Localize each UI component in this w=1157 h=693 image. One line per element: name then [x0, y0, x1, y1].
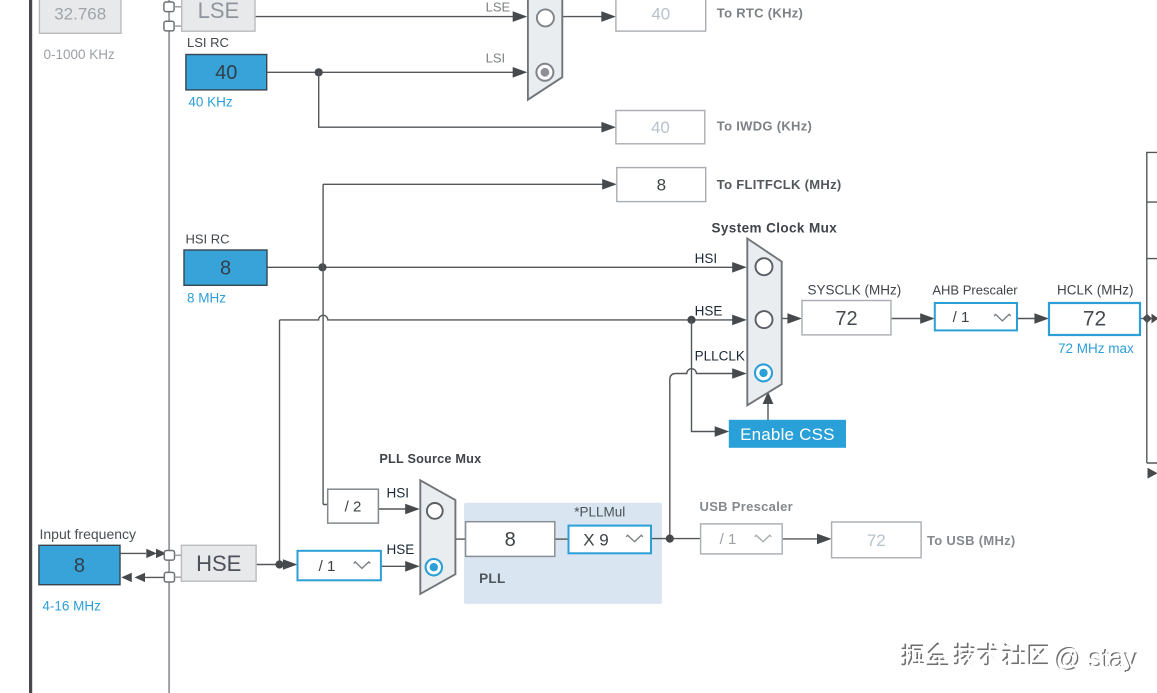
radio system mux HSE input — [756, 311, 773, 328]
pin square 2 — [164, 21, 174, 31]
box PLLMul dropdown — [569, 526, 652, 554]
wire HSE osc out to input block — [137, 576, 164, 578]
arrowhead into USB box — [817, 534, 832, 545]
svg-text:HSE: HSE — [196, 551, 241, 576]
svg-text:SYSCLK (MHz): SYSCLK (MHz) — [808, 282, 902, 297]
wire /1 to PLL mux — [381, 565, 407, 567]
svg-text:4-16 MHz: 4-16 MHz — [42, 599, 101, 614]
svg-text:To FLITFCLK (MHz): To FLITFCLK (MHz) — [717, 177, 842, 192]
wire HSE box out — [256, 564, 284, 566]
arrowhead into HCLK — [1034, 313, 1049, 324]
wire HSE to system mux with hop — [280, 315, 734, 320]
arrowhead into right bus box — [1152, 314, 1157, 324]
arrowhead into To IWDG — [601, 122, 616, 133]
svg-text:USB Prescaler: USB Prescaler — [700, 499, 794, 514]
box LSI RC 40 value — [186, 55, 267, 90]
svg-text:HSI: HSI — [695, 251, 718, 266]
arrowhead LSI into RTC mux — [513, 67, 528, 78]
svg-text:40: 40 — [651, 118, 670, 137]
wire HSE vertical riser — [279, 320, 281, 565]
svg-text:To IWDG (KHz): To IWDG (KHz) — [717, 119, 812, 134]
svg-text:HSI: HSI — [387, 486, 410, 501]
box PLL input value — [466, 522, 555, 557]
arrowhead into SYSCLK — [787, 313, 802, 324]
junction HSI tee — [318, 263, 326, 271]
wire HSI to FLITFCLK — [323, 183, 604, 185]
wire USB prescaler to USB box — [782, 538, 819, 540]
pin square 4 — [164, 572, 174, 582]
double arrow in 1 — [146, 549, 157, 558]
wire HCLK to bus matrix — [1140, 318, 1143, 320]
wire HSE down to Enable CSS — [692, 320, 717, 432]
svg-text:To USB (MHz): To USB (MHz) — [927, 533, 1016, 548]
svg-text:LSI RC: LSI RC — [187, 35, 229, 50]
svg-text:8 MHz: 8 MHz — [187, 291, 226, 306]
arrowhead into AHB prescaler — [920, 313, 935, 324]
radio system mux HSI input — [756, 258, 773, 275]
wire PLLCLK up to system mux with hop — [670, 369, 734, 539]
wire pin stub LSE 1 — [174, 6, 182, 8]
svg-text:HCLK (MHz): HCLK (MHz) — [1057, 282, 1134, 297]
svg-text:HSI RC: HSI RC — [186, 232, 230, 247]
radio RTC mux LSE input — [537, 9, 554, 26]
junction LSI tee — [315, 68, 323, 76]
wire HSI vertical feed — [323, 184, 328, 504]
svg-text:LSE: LSE — [198, 0, 240, 23]
svg-text:System Clock Mux: System Clock Mux — [712, 221, 838, 236]
arrowhead into HSE divider — [283, 559, 298, 570]
arrowhead into To FLITFCLK — [602, 179, 617, 190]
radio PLL mux HSI input — [427, 503, 443, 519]
svg-text:32.768: 32.768 — [54, 5, 106, 24]
svg-text:PLL: PLL — [479, 571, 505, 586]
pin square 3 — [164, 551, 174, 561]
wire SYSCLK to AHB prescaler — [891, 318, 922, 320]
box LSE oscillator — [182, 0, 255, 31]
mux PLL Source Mux — [420, 480, 455, 594]
pin square 1 — [164, 2, 174, 12]
svg-text:@ stay: @ stay — [1056, 644, 1140, 674]
svg-text:40: 40 — [651, 5, 670, 24]
wire system mux to SYSCLK — [782, 318, 790, 320]
arrowhead into To RTC — [601, 11, 616, 22]
svg-text:40 KHz: 40 KHz — [188, 95, 233, 110]
arrowhead HSE into system mux — [732, 315, 747, 326]
PLL block panel — [464, 503, 662, 604]
watermark juejin community CJK — [902, 643, 1047, 664]
radio PLL mux HSE input (selected) — [426, 559, 442, 575]
svg-text:/ 1: / 1 — [720, 531, 737, 548]
box HSE prescaler dropdown — [298, 551, 381, 581]
arrowhead LSE into RTC mux — [513, 11, 528, 22]
wire CSS up arrow line — [767, 404, 769, 421]
wire LSI to IWDG — [319, 72, 604, 127]
svg-text:AHB Prescaler: AHB Prescaler — [932, 282, 1018, 297]
wire bus box left edge and dividers — [1147, 152, 1157, 463]
junction PLLCLK tee — [666, 535, 674, 543]
wire pin stub HSE 1 — [175, 554, 182, 556]
svg-text:*PLLMul: *PLLMul — [574, 505, 625, 520]
double arrow in 2 — [156, 549, 167, 558]
box AHB prescaler dropdown — [935, 303, 1017, 330]
double arrow out 2 — [135, 573, 146, 582]
wire LSE to RTC mux — [255, 16, 514, 18]
arrowhead HSI into system mux — [732, 262, 747, 273]
small arrowhead bottom right — [1148, 468, 1157, 479]
arrowhead PLLCLK into system mux — [732, 368, 747, 379]
svg-text:Enable CSS: Enable CSS — [740, 425, 835, 444]
wire PLLMul out to USB prescaler — [651, 538, 701, 540]
svg-text:/ 1: / 1 — [953, 309, 970, 326]
wire /2 to PLL mux — [378, 508, 406, 510]
box USB prescaler dropdown (disabled) — [701, 524, 783, 554]
diamond connector at HCLK output — [1142, 314, 1151, 323]
svg-text:LSI: LSI — [486, 51, 506, 66]
mux RTC clock mux — [528, 0, 562, 100]
box LSE frequency input 32.768 — [39, 0, 121, 33]
svg-text:Input frequency: Input frequency — [40, 526, 137, 542]
svg-text:8: 8 — [657, 176, 666, 195]
svg-text:/ 2: / 2 — [345, 498, 362, 515]
wire pin stub HSE 2 — [175, 576, 182, 578]
oscillator boundary vertical grey line — [168, 0, 170, 693]
junction HSE tee at CSS feed — [687, 316, 695, 324]
wire input freq to HSE osc in — [121, 552, 146, 554]
wire AHB to HCLK — [1017, 318, 1037, 320]
wire LSI out — [267, 71, 514, 73]
box To USB value — [832, 522, 922, 558]
svg-text:8: 8 — [220, 258, 231, 280]
arrowhead into Enable CSS — [715, 426, 730, 437]
wire pin stub LSE 2 — [174, 25, 182, 27]
arrowhead up into mux bottom — [763, 392, 774, 405]
wire PLL input to PLLMul — [555, 538, 569, 540]
svg-text:40: 40 — [215, 62, 237, 84]
svg-text:8: 8 — [505, 529, 516, 551]
wire RTC mux to To-RTC box — [562, 16, 603, 18]
svg-text:X 9: X 9 — [583, 530, 609, 549]
double arrow out 1 — [121, 573, 132, 582]
arrowhead HSI into PLL mux — [405, 504, 420, 515]
svg-text:PLLCLK: PLLCLK — [695, 349, 745, 364]
svg-text:8: 8 — [74, 555, 85, 577]
arrowhead HSE into PLL mux — [405, 561, 420, 572]
svg-text:PLL Source Mux: PLL Source Mux — [379, 452, 481, 466]
chip boundary dark bar left — [29, 0, 32, 693]
box HCLK value — [1049, 303, 1140, 335]
radio system mux PLLCLK input (selected) — [755, 364, 772, 381]
wire HSI out to system mux — [267, 266, 733, 268]
svg-text:/ 1: / 1 — [319, 558, 336, 575]
svg-text:To RTC (KHz): To RTC (KHz) — [717, 5, 803, 20]
wire PLL mux to PLL input box — [455, 538, 466, 540]
svg-text:72: 72 — [867, 531, 886, 550]
svg-text:HSE: HSE — [387, 542, 415, 557]
svg-text:0-1000 KHz: 0-1000 KHz — [44, 47, 116, 62]
mux System Clock Mux — [747, 239, 781, 406]
radio RTC mux LSI input (selected) — [536, 64, 553, 81]
box To IWDG value — [616, 111, 705, 144]
svg-text:72: 72 — [1083, 308, 1106, 331]
box HSI /2 fixed divider — [328, 489, 379, 523]
box HSE input frequency value — [39, 545, 120, 584]
box Enable CSS button — [729, 420, 845, 447]
box To FLITFCLK value — [617, 168, 706, 202]
svg-text:72: 72 — [835, 308, 857, 330]
box To RTC value — [616, 0, 706, 31]
box HSI RC 8 value — [184, 250, 267, 285]
svg-text:72 MHz max: 72 MHz max — [1058, 341, 1134, 356]
box SYSCLK value — [802, 301, 891, 335]
junction HSE out tee — [275, 560, 283, 568]
svg-text:HSE: HSE — [695, 304, 723, 319]
svg-text:LSE: LSE — [486, 0, 511, 15]
box HSE oscillator — [181, 545, 256, 581]
